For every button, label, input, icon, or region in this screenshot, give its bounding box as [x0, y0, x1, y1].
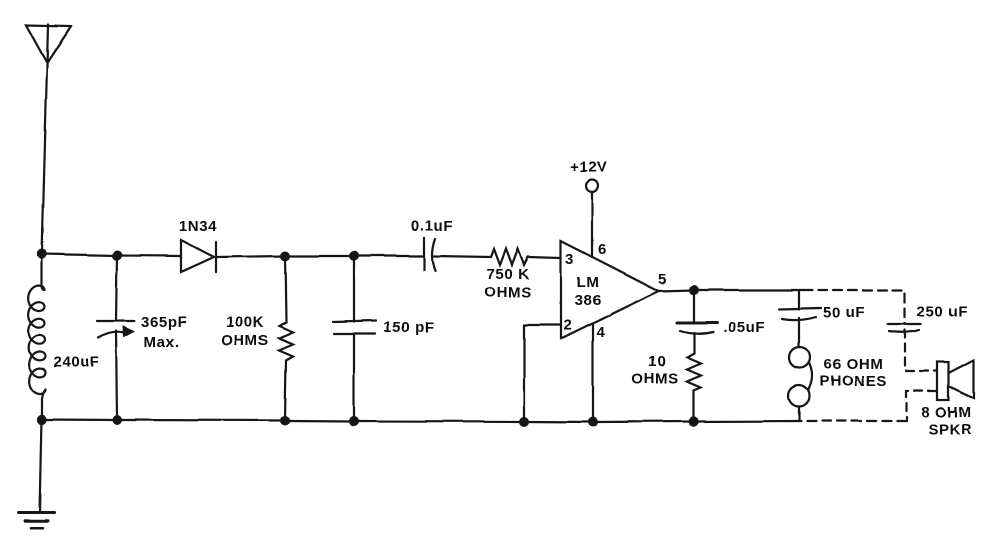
label 66 OHM PHONES: [820, 356, 887, 390]
svg-text:6: 6: [598, 241, 607, 258]
node junction dot 150pF bottom: [349, 416, 359, 426]
svg-text:PHONES: PHONES: [820, 373, 887, 390]
label 365pF Max.: [141, 314, 187, 351]
wire 50uF to phones: [798, 318, 800, 347]
node junction dot bottom left: [37, 414, 47, 424]
wire 0.1uF to resistor R2: [434, 256, 491, 257]
label 8 OHM SPKR: [921, 404, 972, 438]
wire dashed speaker bottom return: [906, 391, 936, 421]
wire 150pF to ground rail: [353, 334, 355, 421]
svg-text:.05uF: .05uF: [723, 319, 765, 336]
svg-text:750 K: 750 K: [486, 266, 529, 283]
node junction dot pin2 bottom: [519, 417, 529, 427]
node junction dot variable cap bottom: [112, 415, 122, 425]
node A junction dot: [37, 249, 47, 259]
node junction dot zobel bottom: [689, 416, 699, 426]
wire pin 6 to +12V: [591, 192, 593, 257]
speaker 8 OHM SPKR: [937, 360, 974, 400]
svg-text:3: 3: [566, 251, 575, 268]
wire node A to ground wire: [40, 420, 42, 513]
svg-text:365pF: 365pF: [141, 314, 187, 331]
phones 66 OHM (two earpiece circles): [789, 347, 813, 407]
ground: [19, 513, 54, 528]
node junction dot output pin5: [689, 285, 699, 295]
variable capacitor C1 365pF: [97, 321, 134, 338]
capacitor C4 .05uF: [677, 323, 717, 334]
capacitor C2 150 pF: [333, 321, 376, 334]
svg-text:2: 2: [564, 317, 573, 334]
wire pin 4 to ground rail: [592, 324, 594, 421]
op-amp U1 LM386 triangle: [561, 241, 659, 339]
svg-text:250 uF: 250 uF: [917, 303, 968, 320]
svg-text:66 OHM: 66 OHM: [824, 356, 883, 373]
resistor R3 10 OHMS vertical zigzag: [687, 353, 701, 390]
label 750 K OHMS: [484, 266, 531, 301]
svg-text:SPKR: SPKR: [928, 421, 972, 438]
resistor R2 750K horizontal zigzag: [491, 249, 528, 265]
wire .05uF branch top: [693, 290, 695, 323]
capacitor C5 50 uF: [779, 308, 821, 320]
wire variable cap to ground rail: [116, 331, 117, 420]
wire R3 to ground rail: [693, 390, 695, 421]
node junction dot variable cap top: [112, 251, 122, 261]
wire ground rail: [42, 420, 799, 423]
svg-text:+12V: +12V: [570, 159, 608, 176]
wire dashed top to speaker branch: [803, 290, 905, 324]
wire R2 to pin 3: [528, 257, 561, 258]
label LM 386: [575, 274, 602, 309]
svg-text:240uF: 240uF: [53, 354, 99, 371]
wire phones branch top: [798, 290, 800, 309]
capacitor C3 0.1uF: [424, 238, 435, 271]
wire .05uF to R3: [693, 333, 695, 353]
+12V terminal circle: [586, 180, 598, 192]
svg-text:4: 4: [597, 324, 606, 341]
svg-text:OHMS: OHMS: [631, 370, 678, 387]
diode D1 1N34: [181, 240, 216, 272]
wire 150pF branch top: [353, 256, 355, 322]
node junction dot 100K bottom: [280, 416, 290, 426]
wire top rail left (node A to diode): [42, 254, 181, 256]
label 10 OHMS: [631, 353, 678, 387]
svg-text:0.1uF: 0.1uF: [411, 218, 453, 235]
svg-text:Max.: Max.: [144, 334, 180, 351]
wire dashed 250uF to speaker top: [905, 330, 936, 371]
node junction dot 100K top: [280, 251, 290, 261]
antenna: [26, 24, 71, 66]
node junction dot 150pF top: [349, 251, 359, 261]
wire dashed bottom rail: [800, 420, 906, 422]
svg-text:8 OHM: 8 OHM: [921, 404, 972, 421]
svg-text:10: 10: [648, 353, 666, 370]
svg-text:50 uF: 50 uF: [823, 304, 865, 321]
svg-text:OHMS: OHMS: [484, 284, 531, 301]
wire phones to ground rail: [798, 407, 800, 422]
capacitor C6 250 uF: [888, 324, 921, 332]
wire 100K to ground rail: [285, 360, 286, 421]
svg-text:100K: 100K: [226, 314, 264, 331]
resistor R1 100K vertical zigzag: [279, 322, 293, 360]
svg-text:150 pF: 150 pF: [383, 319, 434, 336]
wire diode to 0.1uF cap: [216, 256, 424, 257]
wire variable cap branch top: [116, 256, 117, 322]
svg-text:OHMS: OHMS: [221, 332, 268, 349]
svg-text:LM: LM: [577, 274, 600, 291]
svg-text:386: 386: [575, 292, 602, 309]
wire 100K branch top: [285, 256, 286, 322]
svg-text:1N34: 1N34: [179, 218, 217, 235]
wire pin 2 feedback to ground rail: [524, 325, 561, 421]
node junction dot pin4 bottom: [588, 417, 598, 427]
wire antenna to node A: [42, 66, 47, 254]
svg-text:5: 5: [659, 271, 668, 288]
inductor L1 coil: [29, 254, 45, 420]
wire pin 5 output: [659, 290, 803, 291]
label 100K OHMS: [221, 314, 268, 349]
